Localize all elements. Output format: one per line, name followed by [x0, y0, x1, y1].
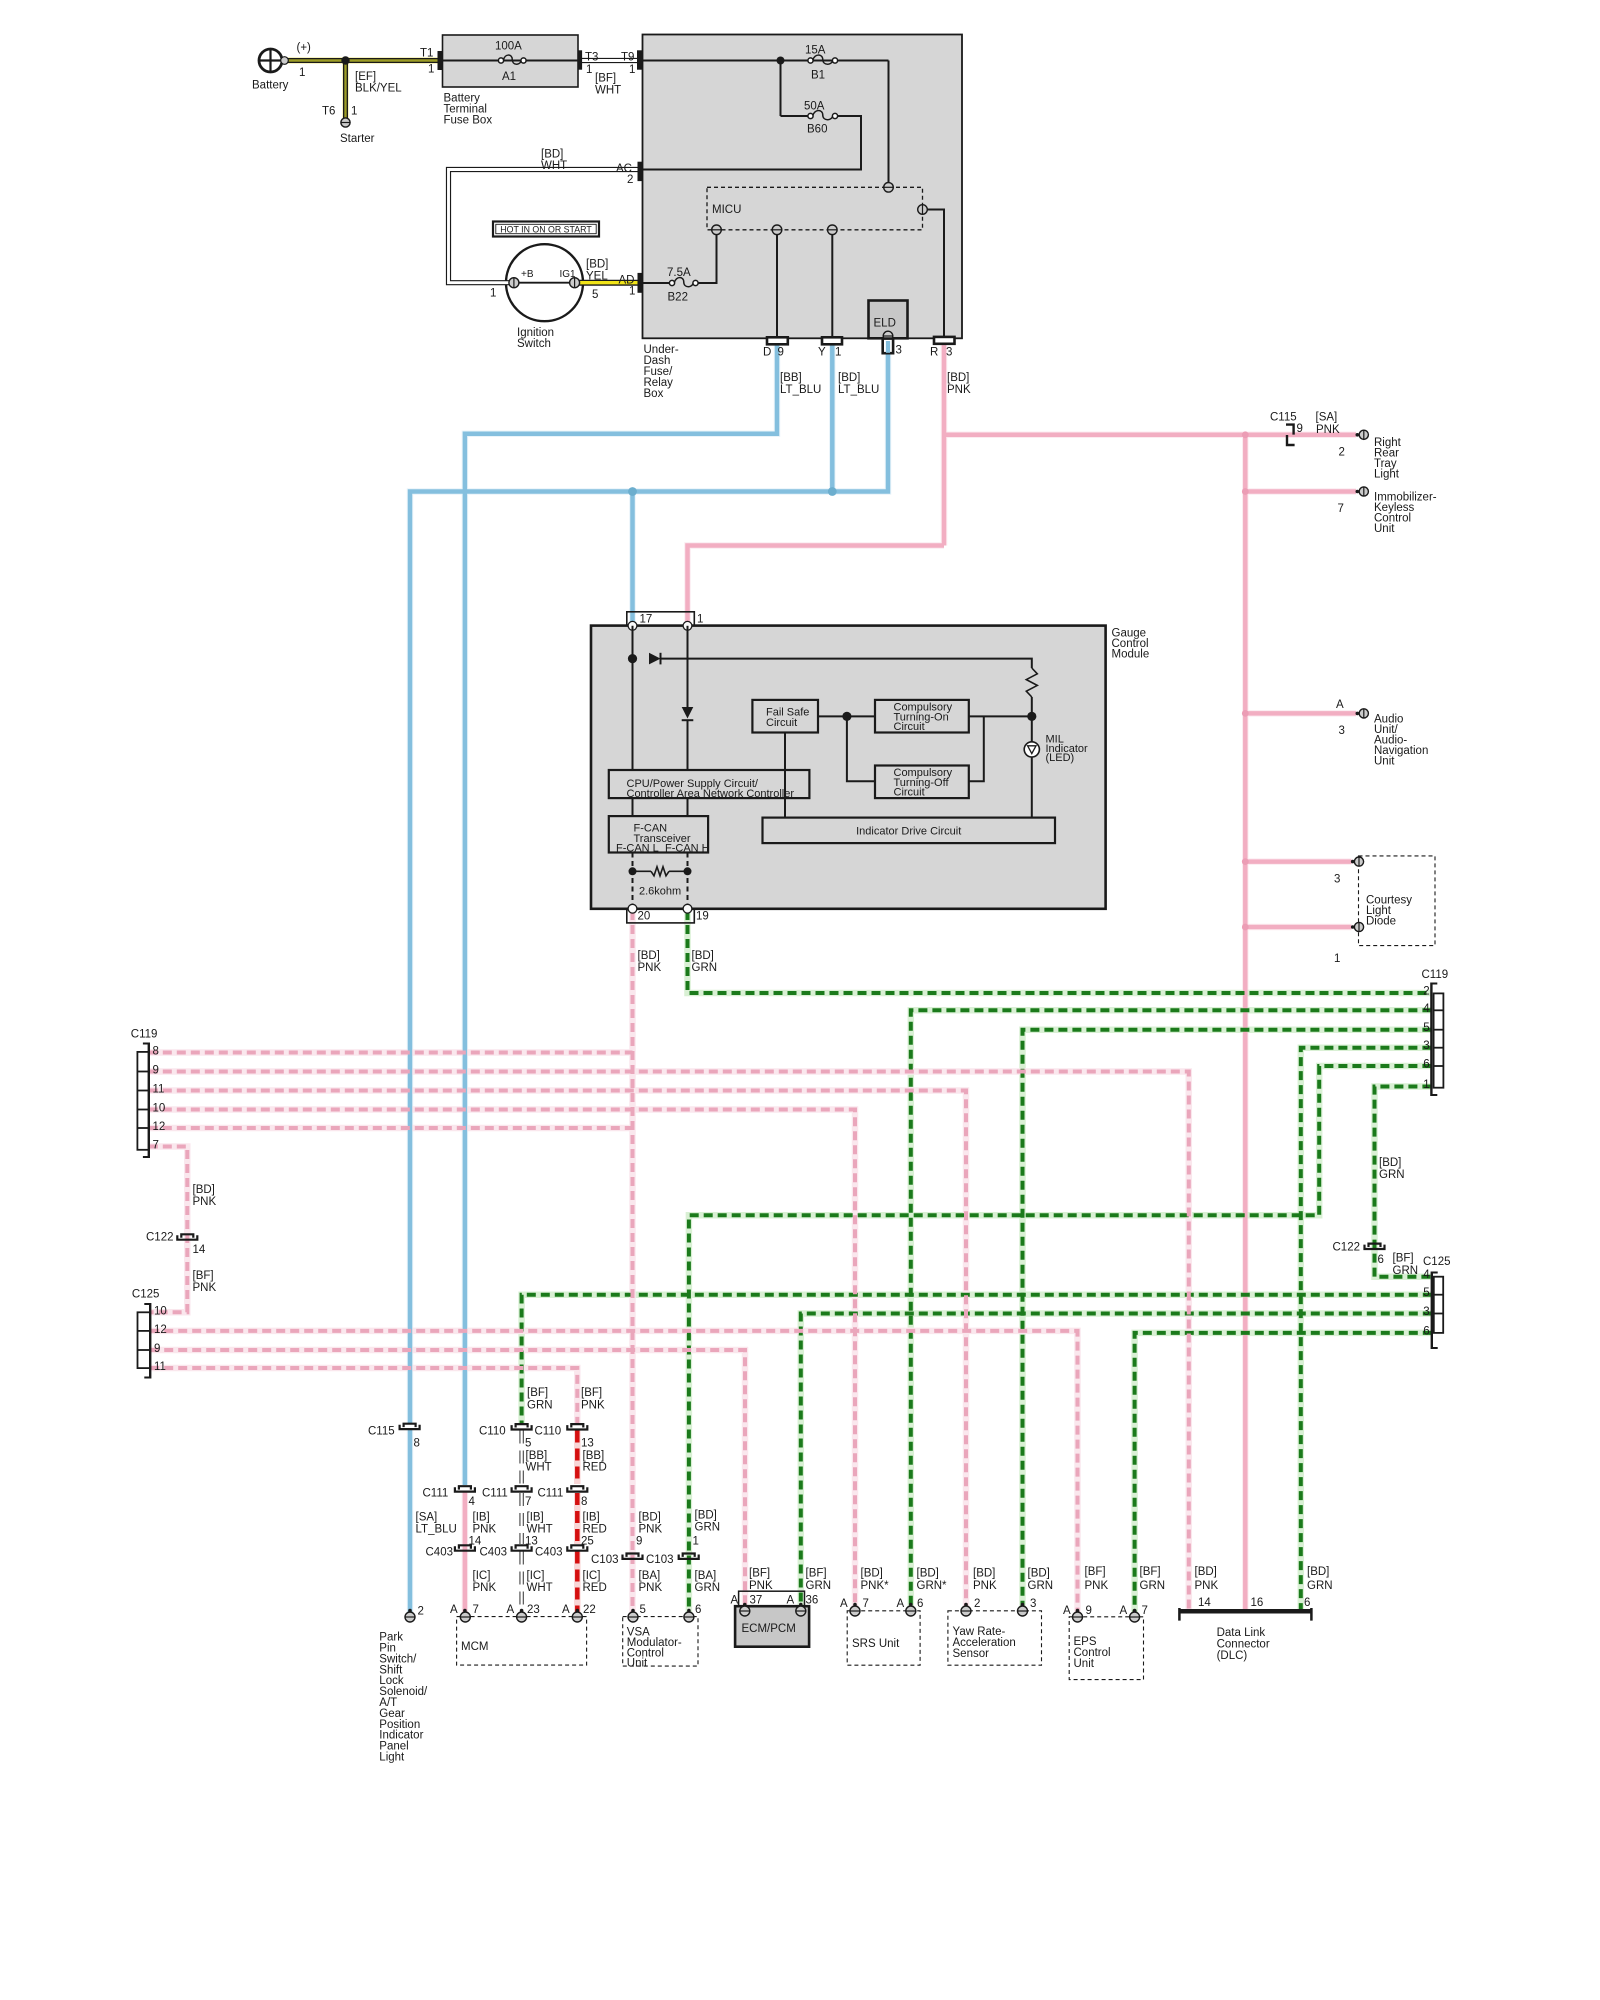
- MICU pin bottom 1: [712, 225, 722, 235]
- svg-text:3: 3: [1334, 874, 1340, 886]
- MCM terminal A23: [520, 1609, 524, 1613]
- immobilizer terminal: [1356, 490, 1360, 494]
- svg-text:GRN: GRN: [1307, 1580, 1333, 1592]
- VSA modulator box: [623, 1617, 698, 1667]
- fuse B22 7.5A: [669, 280, 674, 285]
- SRS unit box: [847, 1611, 920, 1665]
- wire C125 left pin12 to EPS9 PNK: [150, 1331, 1077, 1613]
- svg-text:Light: Light: [379, 1752, 405, 1764]
- svg-text:7: 7: [473, 1604, 479, 1616]
- SRS terminal A6: [909, 1603, 913, 1607]
- svg-text:1: 1: [299, 67, 305, 79]
- svg-text:C115: C115: [1270, 412, 1297, 424]
- svg-text:PNK: PNK: [947, 384, 971, 396]
- svg-text:5: 5: [1423, 1287, 1429, 1299]
- svg-text:LT_BLU: LT_BLU: [416, 1524, 457, 1536]
- connector T1: [438, 51, 443, 70]
- branch to courtesy diode pin3: [1245, 859, 1351, 864]
- wire C119 right pin1 to C125 right pin4 GRN: [1375, 1087, 1432, 1277]
- svg-text:6: 6: [917, 1598, 923, 1610]
- svg-text:Module: Module: [1112, 649, 1150, 661]
- wire IB RED C111 to C403: [575, 1493, 580, 1544]
- svg-text:C111: C111: [538, 1488, 564, 1500]
- wire C119 left pin11 to Yaw2 PNK: [149, 1091, 966, 1608]
- svg-text:B1: B1: [811, 70, 825, 82]
- svg-text:2: 2: [974, 1598, 980, 1610]
- battery terminal fuse box body: [443, 35, 579, 87]
- svg-text:37: 37: [750, 1595, 763, 1607]
- svg-text:3: 3: [946, 347, 952, 359]
- svg-text:Starter: Starter: [340, 133, 375, 145]
- wire inside battery terminal fuse box: [443, 60, 579, 62]
- svg-text:GRN: GRN: [527, 1400, 553, 1412]
- wire pin1 down with diode D2: [687, 626, 689, 707]
- data link connector DLC bar: [1179, 1609, 1311, 1614]
- connector C103 left: [627, 1554, 639, 1557]
- connector C125 left: [149, 1303, 151, 1379]
- svg-text:WHT: WHT: [595, 85, 621, 97]
- svg-text:Unit: Unit: [627, 1658, 648, 1670]
- svg-text:RED: RED: [583, 1582, 607, 1594]
- compulsory turning-on box: [875, 700, 969, 733]
- svg-text:T6: T6: [322, 106, 335, 118]
- svg-text:[BF]: [BF]: [806, 1568, 827, 1580]
- svg-text:[BD]: [BD]: [193, 1184, 215, 1196]
- connector R: [934, 337, 955, 344]
- branch to audio unit: [1245, 711, 1356, 716]
- EPS terminal A9: [1076, 1609, 1080, 1613]
- MICU dashed box: [707, 187, 923, 230]
- svg-text:4: 4: [1423, 1269, 1430, 1281]
- connector C111 middle: [516, 1486, 528, 1489]
- svg-text:5: 5: [592, 289, 598, 301]
- svg-text:GRN: GRN: [692, 962, 718, 974]
- wire R3 branch to gauge pin1 PNK: [688, 546, 945, 626]
- svg-text:PNK: PNK: [1316, 424, 1340, 436]
- indicator drive circuit box: [763, 818, 1056, 844]
- diode D1 right: [649, 653, 661, 665]
- audio unit terminal: [1356, 712, 1360, 716]
- svg-text:2.6kohm: 2.6kohm: [639, 886, 681, 898]
- svg-text:50A: 50A: [804, 101, 825, 113]
- svg-text:A: A: [507, 1604, 515, 1616]
- ignition switch circle: [506, 244, 583, 321]
- svg-text:C115: C115: [368, 1426, 395, 1438]
- svg-text:HOT IN ON OR START: HOT IN ON OR START: [500, 224, 592, 234]
- svg-text:PNK: PNK: [749, 1580, 773, 1592]
- svg-text:[SA]: [SA]: [416, 1512, 438, 1524]
- svg-text:LT_BLU: LT_BLU: [780, 384, 821, 396]
- svg-text:Controller Area Network Contro: Controller Area Network Controller: [627, 788, 795, 800]
- svg-text:Battery: Battery: [252, 80, 289, 92]
- svg-text:PNK: PNK: [973, 1580, 997, 1592]
- svg-text:6: 6: [1304, 1597, 1310, 1609]
- wire AC to ignition +B WHT: [449, 170, 643, 283]
- svg-text:(DLC): (DLC): [1217, 1650, 1248, 1662]
- wire C125 left pin9 to ECM A37 PNK: [150, 1350, 745, 1607]
- svg-text:A: A: [1336, 699, 1344, 711]
- svg-text:Switch: Switch: [517, 338, 551, 350]
- svg-text:C403: C403: [426, 1547, 454, 1559]
- svg-text:3: 3: [1030, 1598, 1036, 1610]
- connector C125 right: [1431, 1272, 1433, 1350]
- svg-text:GRN: GRN: [695, 1582, 721, 1594]
- svg-text:16: 16: [1251, 1597, 1264, 1609]
- connector C111 left: [459, 1486, 471, 1489]
- svg-text:[EF]: [EF]: [355, 71, 376, 83]
- svg-text:GRN: GRN: [1393, 1265, 1419, 1277]
- fuse B60 50A: [808, 113, 813, 118]
- wire LED to indicator drive circuit: [1031, 757, 1033, 818]
- svg-text:SRS Unit: SRS Unit: [852, 1638, 900, 1650]
- compulsory turning-off box: [875, 766, 969, 799]
- wire branch to gauge pin17 LT_BLU: [630, 492, 635, 626]
- MCM terminal A22: [576, 1609, 580, 1613]
- svg-text:13: 13: [581, 1438, 594, 1450]
- svg-text:7: 7: [1142, 1605, 1148, 1617]
- wire MICU pin1 to 7.5A fuse to AD: [643, 234, 717, 283]
- svg-text:[BD]: [BD]: [638, 950, 660, 962]
- svg-text:[BA]: [BA]: [639, 1570, 661, 1582]
- svg-text:GRN: GRN: [1379, 1169, 1405, 1181]
- svg-text:GRN: GRN: [695, 1522, 721, 1534]
- wire off box up to node: [969, 716, 984, 781]
- svg-text:1: 1: [835, 347, 841, 359]
- svg-text:R: R: [930, 347, 938, 359]
- svg-text:[IB]: [IB]: [583, 1512, 600, 1524]
- connector C122 left inline: [181, 1234, 193, 1237]
- wire BB RED C110 to C111: [575, 1431, 580, 1485]
- svg-text:[BB]: [BB]: [583, 1450, 605, 1462]
- F-CAN L dashed wire to pin20: [632, 853, 634, 909]
- svg-text:[BD]: [BD]: [838, 372, 860, 384]
- svg-text:[IC]: [IC]: [527, 1570, 545, 1582]
- connector C119 left: [148, 1043, 150, 1159]
- svg-text:[BD]: [BD]: [692, 950, 714, 962]
- svg-text:9: 9: [153, 1065, 159, 1077]
- connector C403 left: [459, 1545, 471, 1548]
- svg-text:9: 9: [1086, 1605, 1092, 1617]
- connector AD pin 1: [638, 273, 643, 293]
- svg-text:Unit: Unit: [1374, 756, 1395, 768]
- svg-text:25: 25: [581, 1536, 594, 1548]
- courtesy diode terminal 3: [1351, 860, 1355, 864]
- svg-text:ECM/PCM: ECM/PCM: [742, 1623, 796, 1635]
- EPS terminal A7: [1133, 1609, 1137, 1613]
- svg-text:[BD]: [BD]: [861, 1568, 883, 1580]
- connector C110 left: [516, 1424, 528, 1427]
- svg-text:1: 1: [629, 286, 635, 298]
- svg-text:[BD]: [BD]: [1195, 1566, 1217, 1578]
- MICU pin bottom 2: [772, 225, 782, 235]
- wire to starter BLK/YEL: [343, 61, 348, 119]
- svg-text:23: 23: [527, 1604, 540, 1616]
- svg-text:3: 3: [1339, 725, 1345, 737]
- gauge control module body: [591, 626, 1106, 909]
- svg-text:T3: T3: [585, 51, 598, 63]
- svg-text:[BF]: [BF]: [595, 73, 616, 85]
- junction dot blue at Y1/ELD join: [828, 487, 837, 496]
- svg-text:7: 7: [525, 1496, 531, 1508]
- svg-text:1: 1: [693, 1536, 699, 1548]
- wire D9 LT_BLU to C111 pin4 column: [465, 344, 777, 1485]
- svg-text:T1: T1: [420, 48, 433, 60]
- svg-text:[BD]: [BD]: [1379, 1157, 1401, 1169]
- svg-text:[BF]: [BF]: [1393, 1253, 1414, 1265]
- VSA terminal 5: [631, 1609, 635, 1613]
- svg-text:[IB]: [IB]: [473, 1512, 490, 1524]
- wire diode to resistor: [661, 659, 1032, 668]
- svg-text:B22: B22: [668, 292, 688, 304]
- wire IG1 to AD YEL: [580, 280, 638, 286]
- starter terminal T6: [341, 118, 350, 127]
- fuse B1 15A: [808, 58, 813, 63]
- wire BB WHT C110 to C111: [519, 1431, 523, 1485]
- svg-text:A: A: [840, 1598, 848, 1610]
- svg-text:[IB]: [IB]: [527, 1512, 544, 1524]
- svg-text:7: 7: [1338, 503, 1344, 515]
- svg-text:2: 2: [418, 1605, 424, 1617]
- svg-text:ELD: ELD: [874, 318, 896, 330]
- svg-text:PNK: PNK: [473, 1524, 497, 1536]
- svg-text:Y: Y: [818, 347, 826, 359]
- connector ELD 3: [883, 339, 893, 354]
- svg-text:Indicator Drive Circuit: Indicator Drive Circuit: [856, 826, 961, 838]
- junction dot pin17: [628, 654, 637, 663]
- svg-text:5: 5: [1423, 1022, 1429, 1034]
- gauge module top connector: [627, 612, 695, 626]
- svg-text:C403: C403: [535, 1547, 563, 1559]
- connector Y: [822, 337, 842, 344]
- svg-text:+B: +B: [521, 269, 534, 280]
- svg-text:1: 1: [1423, 1079, 1429, 1091]
- svg-text:14: 14: [193, 1244, 206, 1256]
- svg-text:[SA]: [SA]: [1316, 412, 1338, 424]
- svg-text:4: 4: [469, 1496, 476, 1508]
- svg-text:C111: C111: [482, 1488, 508, 1500]
- svg-text:C119: C119: [131, 1029, 158, 1041]
- svg-text:1: 1: [697, 613, 703, 625]
- ECM/PCM connector box: [739, 1591, 805, 1606]
- EPS control unit box: [1069, 1617, 1143, 1680]
- svg-text:C110: C110: [479, 1426, 506, 1438]
- svg-text:PNK: PNK: [193, 1196, 217, 1208]
- svg-text:C403: C403: [480, 1547, 508, 1559]
- wire R3 PNK down and right to trunk: [942, 344, 947, 546]
- svg-text:[BD]: [BD]: [947, 372, 969, 384]
- svg-text:7.5A: 7.5A: [667, 267, 691, 279]
- connector C403 right: [571, 1545, 583, 1548]
- battery B1 symbol: [259, 49, 282, 72]
- connector C111 right: [571, 1486, 583, 1489]
- svg-text:3: 3: [1423, 1306, 1429, 1318]
- svg-text:PNK: PNK: [1085, 1580, 1109, 1592]
- SRS terminal A7: [853, 1603, 857, 1607]
- svg-text:PNK: PNK: [581, 1400, 605, 1412]
- svg-text:4: 4: [1423, 1003, 1430, 1015]
- yaw terminal 2: [964, 1603, 968, 1607]
- svg-text:[BB]: [BB]: [780, 372, 802, 384]
- svg-text:[BD]: [BD]: [639, 1512, 661, 1524]
- svg-text:D: D: [763, 347, 771, 359]
- svg-text:8: 8: [414, 1438, 420, 1450]
- svg-text:(+): (+): [297, 42, 312, 54]
- svg-text:C122: C122: [1333, 1242, 1361, 1254]
- wire Y1 LT_BLU: [830, 344, 835, 491]
- svg-text:9: 9: [778, 347, 784, 359]
- svg-text:[BD]: [BD]: [586, 259, 608, 271]
- svg-text:C111: C111: [423, 1488, 449, 1500]
- yaw terminal 3: [1021, 1603, 1025, 1607]
- ECM terminal A37: [743, 1603, 747, 1607]
- svg-text:9: 9: [154, 1343, 160, 1355]
- CPU power supply box: [609, 770, 810, 798]
- branch to right rear tray light: [1245, 433, 1356, 438]
- svg-text:[BD]: [BD]: [1028, 1568, 1050, 1580]
- svg-text:3: 3: [896, 345, 902, 357]
- svg-text:Light: Light: [1374, 469, 1400, 481]
- svg-text:8: 8: [581, 1496, 587, 1508]
- MICU pin top: [884, 183, 894, 193]
- svg-text:22: 22: [583, 1604, 596, 1616]
- svg-text:Unit: Unit: [1074, 1658, 1095, 1670]
- svg-text:C122: C122: [146, 1232, 174, 1244]
- svg-text:Circuit: Circuit: [894, 721, 925, 733]
- wire SRS6 to C119 right pin4 GRN: [911, 1010, 1432, 1607]
- wire gauge pin20 to C119:8/12 and VSA5 PNK: [631, 911, 635, 1613]
- connector C122 right inline: [1369, 1244, 1381, 1247]
- MCM box: [457, 1617, 587, 1666]
- svg-text:36: 36: [806, 1595, 819, 1607]
- pink trunk vertical to DLC16: [1243, 435, 1248, 1609]
- wire C125 right pin5 to MCM A23 GRN: [522, 1295, 1432, 1424]
- wire IB WHT C111 to C403: [519, 1493, 523, 1544]
- svg-text:WHT: WHT: [526, 1462, 552, 1474]
- wire resistor to LED: [1031, 697, 1033, 742]
- connector C115 inline right: [1286, 425, 1294, 435]
- wires CPU to F-CAN: [633, 798, 688, 816]
- svg-text:1: 1: [490, 288, 496, 300]
- connector C110 right: [571, 1424, 583, 1427]
- wire ECM A36 to C125 right pin3 GRN: [801, 1314, 1432, 1608]
- svg-text:17: 17: [640, 613, 653, 625]
- svg-text:5: 5: [640, 1604, 646, 1616]
- svg-text:RED: RED: [583, 1462, 607, 1474]
- svg-text:Circuit: Circuit: [766, 717, 797, 729]
- svg-text:1: 1: [586, 64, 592, 76]
- svg-text:9: 9: [636, 1536, 642, 1548]
- ignition contact line: [514, 282, 575, 284]
- svg-text:1: 1: [428, 64, 434, 76]
- svg-text:PNK: PNK: [1195, 1580, 1219, 1592]
- svg-text:[BF]: [BF]: [527, 1387, 548, 1399]
- svg-text:6: 6: [1378, 1254, 1384, 1266]
- MIL indicator LED: [1024, 742, 1039, 757]
- svg-text:GRN: GRN: [806, 1580, 832, 1592]
- svg-text:[BF]: [BF]: [1140, 1566, 1161, 1578]
- wire T3 to T9 WHT: [582, 58, 637, 63]
- svg-text:PNK*: PNK*: [861, 1580, 890, 1592]
- svg-text:15A: 15A: [805, 45, 826, 57]
- yaw rate sensor box: [948, 1611, 1042, 1665]
- svg-text:1: 1: [629, 64, 635, 76]
- wire branch to 50A fuse B60: [643, 61, 861, 170]
- branch to courtesy diode pin1: [1245, 925, 1351, 930]
- svg-text:A: A: [731, 1595, 739, 1607]
- svg-text:B60: B60: [807, 124, 827, 136]
- svg-text:[BF]: [BF]: [581, 1387, 602, 1399]
- wire C119 left pin12 PNK: [149, 1126, 633, 1130]
- wire on box to LED node: [969, 715, 1032, 717]
- svg-text:C119: C119: [1422, 969, 1449, 981]
- svg-text:[BD]: [BD]: [1307, 1566, 1329, 1578]
- wire pin17 down: [632, 626, 634, 770]
- wire C119 left pin8 PNK: [149, 1051, 633, 1055]
- connector AC pin 2: [638, 162, 643, 181]
- MCM terminal A7: [463, 1609, 467, 1613]
- under-dash fuse/relay box body: [643, 35, 963, 339]
- wire MCM A7 column IB PNK: [463, 1492, 468, 1613]
- svg-text:(LED): (LED): [1046, 752, 1075, 764]
- wire T9 to 15A fuse and MICU: [642, 61, 889, 185]
- wire IC WHT C403 to MCM A23: [519, 1552, 523, 1612]
- svg-text:[BD]: [BD]: [917, 1568, 939, 1580]
- svg-text:PNK: PNK: [639, 1524, 663, 1536]
- svg-text:19: 19: [696, 911, 709, 923]
- svg-text:[BF]: [BF]: [193, 1270, 214, 1282]
- fail safe circuit box: [752, 700, 818, 733]
- svg-text:A: A: [1120, 1605, 1128, 1617]
- junction battery/starter: [341, 56, 349, 64]
- svg-text:100A: 100A: [495, 41, 522, 53]
- svg-text:2: 2: [627, 174, 633, 186]
- ECM/PCM body: [735, 1606, 809, 1647]
- svg-text:[IC]: [IC]: [473, 1570, 491, 1582]
- svg-text:A: A: [562, 1604, 570, 1616]
- courtesy light diode box: [1359, 856, 1436, 946]
- svg-text:A: A: [897, 1598, 905, 1610]
- svg-text:[BD]: [BD]: [695, 1510, 717, 1522]
- svg-text:7: 7: [863, 1598, 869, 1610]
- wire MICU pin3 to Y connector: [831, 234, 833, 337]
- terminating resistor 2.6kohm: [629, 867, 637, 875]
- wire C119 left pin10 to SRS7 PNK: [149, 1110, 855, 1608]
- junction dot blue at gauge pin17 branch: [628, 487, 637, 496]
- svg-text:6: 6: [1423, 1059, 1429, 1071]
- svg-text:10: 10: [154, 1306, 167, 1318]
- wire MICU right pin to R connector: [927, 210, 944, 338]
- svg-text:GRN: GRN: [1140, 1580, 1166, 1592]
- wire Yaw3 to C119 right pin5 GRN: [1023, 1030, 1432, 1607]
- wire C115 to park pin switch LT_BLU: [408, 1428, 413, 1613]
- resistor top right: [1026, 668, 1037, 697]
- svg-text:8: 8: [153, 1046, 159, 1058]
- svg-text:Circuit: Circuit: [894, 787, 925, 799]
- svg-text:14: 14: [1198, 1597, 1211, 1609]
- wire gauge pin19 to C119 right pin2 GRN: [688, 911, 1432, 993]
- svg-text:Connector: Connector: [1217, 1639, 1270, 1651]
- wire ELD3 LT_BLU: [410, 353, 888, 1424]
- junction dot LED: [1027, 712, 1036, 721]
- svg-text:Sensor: Sensor: [953, 1648, 990, 1660]
- svg-text:WHT: WHT: [527, 1524, 553, 1536]
- svg-text:[BA]: [BA]: [695, 1570, 717, 1582]
- wire battery to T1 BLK/YEL: [288, 58, 438, 63]
- F-CAN transceiver box: [609, 816, 708, 852]
- svg-text:IG1: IG1: [560, 269, 577, 280]
- svg-text:MCM: MCM: [461, 1641, 488, 1653]
- svg-text:[BD]: [BD]: [973, 1568, 995, 1580]
